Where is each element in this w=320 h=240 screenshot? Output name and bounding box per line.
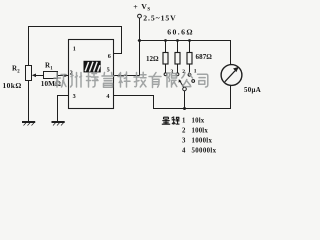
op-amp U1 (photo IC box) [69,40,114,109]
svg-text:1: 1 [73,46,76,53]
wire resistor taps from bus [166,41,190,53]
svg-text:5: 5 [107,67,110,74]
svg-text:10kΩ: 10kΩ [3,81,22,90]
svg-text:S: S [147,8,150,13]
contact 2 [176,73,179,76]
wire R1 to pin 2 [58,75,69,77]
resistor 60.6Ohm (middle) [175,53,180,65]
wire switch pole down to bus [184,91,186,109]
potentiometer R2 [26,66,37,81]
svg-text:1: 1 [194,69,197,75]
svg-text:50000lx: 50000lx [192,147,217,154]
contact 3 [164,73,167,76]
svg-text:1: 1 [182,118,186,125]
svg-text:60.6Ω: 60.6Ω [167,28,194,37]
switch pole arm [180,81,184,87]
svg-text:50μA: 50μA [244,87,261,94]
+Vs terminal [138,14,142,18]
svg-text:+: + [133,2,138,11]
photocell (hatched window) [84,61,100,72]
svg-text:687Ω: 687Ω [196,53,213,61]
ground (below pin 3) [52,122,65,126]
meter M 50uA [221,65,242,86]
wire pin 5 to Vs rail [114,75,140,77]
wire pin 3 to ground [58,96,69,122]
wire R2 wiper to R1 [34,75,44,77]
wire R2 bottom to ground [28,81,30,122]
contact 4 (open) [192,80,195,83]
wire feedback loop from pin 6 to R2 top [29,27,122,67]
node dot tap 3 [188,39,191,42]
svg-text:4: 4 [182,147,186,154]
ground (below R2) [22,122,35,126]
svg-text:2: 2 [182,127,186,134]
svg-text:4: 4 [106,93,109,100]
svg-text:12Ω: 12Ω [146,55,159,63]
table header (liang cheng) drawn strokes [162,116,180,124]
watermark (gray CJK band, drawn) [54,72,208,88]
svg-text:1000lx: 1000lx [192,137,213,144]
svg-text:100lx: 100lx [192,127,209,134]
meter needle [225,71,235,82]
node dot +Vs/bus [138,39,141,42]
switch pole S1 [183,87,187,91]
wire resistor bottoms to contacts [166,64,190,73]
resistor 687Ohm [187,53,192,65]
resistor 12Ohm [163,53,168,65]
node dot tap 1 [164,39,167,42]
node dot pole/bus [183,107,186,110]
contact 1 [188,73,191,76]
svg-text:10lx: 10lx [192,118,205,125]
svg-text:V: V [141,2,147,11]
node dot tap 2 [176,39,179,42]
wire top bus to meter top [138,41,231,65]
svg-text:6: 6 [108,53,111,60]
pin 2 arrowhead [64,74,68,77]
wire +Vs terminal down [139,18,141,76]
resistor R1 [44,72,58,79]
wire pin 4 to bottom bus to meter bottom [114,85,231,108]
svg-text:3: 3 [182,137,186,144]
svg-text:3: 3 [73,93,76,100]
svg-text:2.5~15V: 2.5~15V [143,13,177,22]
